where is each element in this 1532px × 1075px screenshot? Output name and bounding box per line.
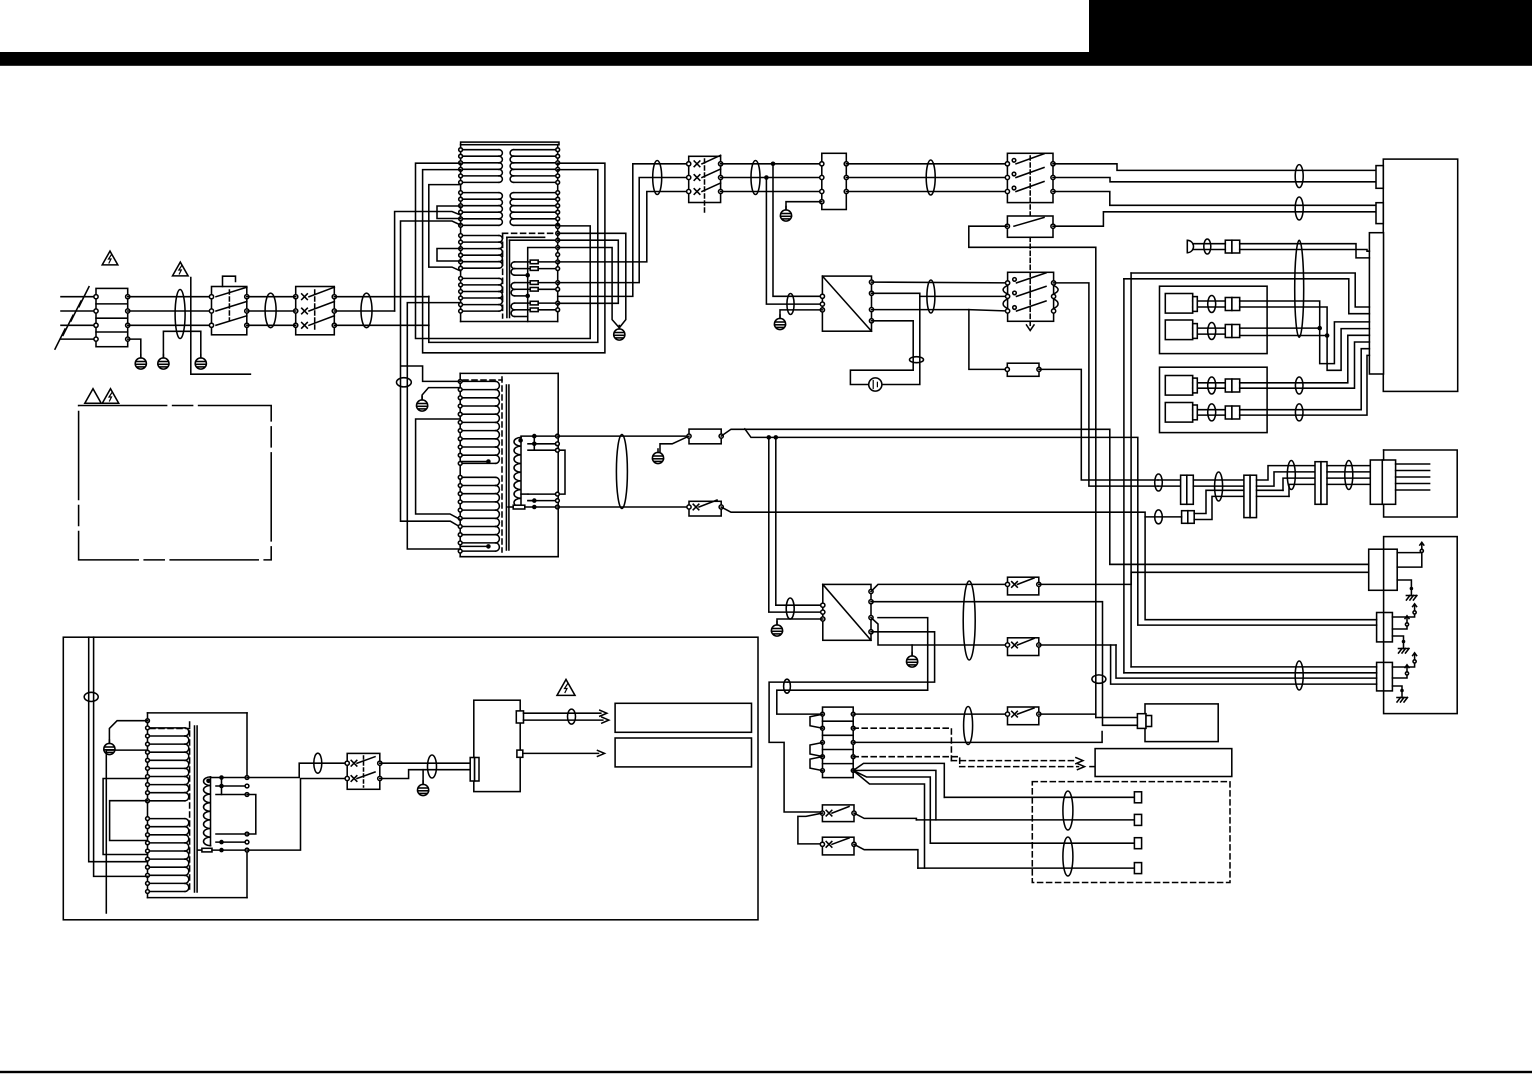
display box xyxy=(1095,749,1232,777)
PCB output single xyxy=(523,752,599,754)
clamp ellipse CN2 input xyxy=(428,755,437,778)
ground E6 (bridge) xyxy=(780,310,822,318)
clamp ellipse bridge input xyxy=(787,294,794,315)
T1 primary winding group 4 (left) xyxy=(461,277,499,279)
S9 output to harness A4 xyxy=(854,844,918,868)
transformer T3 frame xyxy=(148,712,248,714)
CN3 row3 output xyxy=(853,732,1102,743)
AV block1 antenna xyxy=(1397,553,1422,568)
PCB tab1 xyxy=(516,711,523,723)
connector CN6 xyxy=(1244,475,1250,517)
wire row4 to ground xyxy=(128,339,141,357)
clamp ellipse 3 xyxy=(361,293,372,328)
backup battery B1 xyxy=(869,378,882,391)
PS2 ground lead xyxy=(777,619,823,625)
caution triangles pair xyxy=(85,389,101,404)
T3 output wire A xyxy=(247,763,347,777)
AV block2 antennas xyxy=(1392,613,1414,617)
AC outlet box 1 xyxy=(615,703,751,732)
switch S8 xyxy=(822,805,854,822)
CN5 input xyxy=(1145,516,1182,518)
AV block3 antennas xyxy=(1392,662,1414,667)
speaker dashed enclosure xyxy=(1032,782,1230,883)
clamp ellipse band 3 xyxy=(1287,461,1295,490)
transformer T2 frame xyxy=(460,372,558,374)
T1 right bus extra terminals xyxy=(556,225,560,229)
big clamp ellipse PS2 outputs xyxy=(963,581,975,660)
wire bridge mid to SB xyxy=(920,295,1008,297)
wires RY2 to main unit tab1 xyxy=(1053,164,1376,171)
band wires from risers xyxy=(1158,479,1181,481)
T3 secondary taps upper xyxy=(219,775,224,780)
mic plug box 2 xyxy=(1160,367,1268,432)
T3 secondary taps lower xyxy=(216,833,247,835)
CN3 row1 output via switch S7 xyxy=(853,713,1007,715)
video wires to strip xyxy=(1131,273,1369,307)
warning triangle (hot) xyxy=(557,679,575,695)
F2 to ground E7 xyxy=(660,436,689,452)
clamp ellipse band in xyxy=(1155,474,1163,491)
wires CN1 to relay RY2 xyxy=(846,163,1007,165)
T3 primary winding upper xyxy=(148,727,186,729)
bridge rectifier D1 xyxy=(822,276,871,331)
caution note dash-dot box xyxy=(79,406,272,560)
DC-DC converter PS2 xyxy=(823,584,871,640)
ground E1 xyxy=(135,355,146,370)
RY3 output to tab2 xyxy=(1053,212,1376,226)
T1 winding taps junction dots xyxy=(525,273,530,278)
ground E8 xyxy=(771,622,782,637)
PS2 output w4 (head amp feed) xyxy=(788,632,935,682)
T2 secondary taps lower xyxy=(532,498,537,503)
mic D pair to strip xyxy=(1240,349,1370,410)
clamp ellipse AV block3 xyxy=(1295,661,1303,690)
connector CN4 xyxy=(1181,475,1187,504)
switch S6 (2-pole) xyxy=(347,753,380,789)
T3 core lines xyxy=(194,726,196,892)
T1 secondary winding group 1 (right) xyxy=(514,149,558,151)
T1 secondary staircase to relay RY1 xyxy=(558,164,689,297)
main unit box xyxy=(1383,159,1457,391)
T1 low-voltage winding b xyxy=(515,282,528,284)
mic plug D xyxy=(1165,403,1192,423)
T3 output wire B xyxy=(247,779,347,851)
bridge feed drop wires xyxy=(773,164,822,296)
T2 output branch to PS2 xyxy=(745,429,776,438)
cable tie on plug feed pair xyxy=(1092,675,1106,683)
AV block1 connector xyxy=(1369,549,1398,590)
PS2 output w2 xyxy=(871,602,1137,726)
control PCB xyxy=(474,700,520,791)
jack clamp ellipse xyxy=(1204,239,1211,254)
wires TB1 to power switch xyxy=(128,296,212,298)
T2 secondary taps upper xyxy=(532,434,537,439)
CN3 row2 dashed control xyxy=(853,728,951,760)
ground E5 xyxy=(780,207,791,222)
T2 secondary winding xyxy=(514,437,521,507)
clamp ellipse bridge outputs xyxy=(927,280,935,313)
warning triangle (mains) xyxy=(102,251,118,265)
T3 ground lead xyxy=(109,721,147,743)
AV block2 connector xyxy=(1377,613,1393,642)
DSP box xyxy=(1384,450,1458,517)
clamp ellipse CN3 out xyxy=(964,707,973,745)
cable tie on battery pair xyxy=(910,357,924,363)
AC outlet box 2 xyxy=(615,738,751,767)
T2 secondary fuse xyxy=(508,506,513,508)
video risers down to AV board xyxy=(1130,273,1132,667)
AV block1 ground hook xyxy=(1397,580,1411,589)
main unit tab2 xyxy=(1376,203,1383,224)
fan box xyxy=(1145,704,1218,742)
T2 switched output xyxy=(557,506,689,508)
T3 right terminals xyxy=(245,776,249,780)
AV block3 input wires xyxy=(1131,666,1377,668)
clamp ellipse after RY1 xyxy=(751,161,760,195)
connector CN2 xyxy=(470,758,474,782)
clamp ellipse band 4 xyxy=(1345,461,1353,490)
jack connector xyxy=(1225,240,1232,253)
page header block top-right (black) xyxy=(1089,0,1532,59)
AV block2 ground hook xyxy=(1392,636,1403,642)
S5 output to AV block3 xyxy=(1039,644,1116,646)
harness plugs xyxy=(1134,792,1141,803)
clamp ellipse T2 outputs xyxy=(616,435,627,509)
power switch S1 xyxy=(212,287,247,335)
T2 right terminals xyxy=(556,434,560,438)
connector CN5 (lower) xyxy=(1182,511,1188,524)
transformer T1 bottom edge xyxy=(461,321,558,323)
clamp ellipse 2 xyxy=(265,293,276,328)
CN3 row5 harness fan-out xyxy=(853,763,944,797)
transformer T1 left bus xyxy=(460,145,462,322)
T3 left link loops xyxy=(103,779,147,855)
chassis lead below warning triangle xyxy=(191,278,251,375)
T1 left bus terminals xyxy=(459,148,463,152)
main unit tab1 xyxy=(1376,166,1383,189)
AV block3 ground hook xyxy=(1392,686,1402,691)
T2 primary winding upper xyxy=(460,380,495,382)
bridge output battery loop xyxy=(872,293,920,384)
connector CN8 (board edge) xyxy=(1370,460,1382,504)
fan plug xyxy=(1137,714,1146,729)
SB interlock bows xyxy=(1003,285,1008,294)
clamp ellipse head amp feed xyxy=(784,679,791,693)
T1 secondary winding group 2 (right) xyxy=(514,192,558,194)
jack wire pair to strip xyxy=(1193,243,1226,245)
T1 outer loop wire A xyxy=(416,163,591,338)
standby switch SB (3-pole) xyxy=(1008,272,1054,321)
bridge output to switch SB xyxy=(872,281,1008,284)
T2 output wire (fused main) xyxy=(557,435,689,437)
big loom ellipse xyxy=(1295,240,1304,337)
relay RY2 xyxy=(1007,153,1053,202)
AC feed riser to T1 (row2) xyxy=(395,212,461,312)
T2 ground lead xyxy=(422,388,460,400)
cable tie on T3 feed pair xyxy=(84,692,98,701)
headphone jack xyxy=(1187,240,1193,252)
RY3 feed loop xyxy=(969,226,1096,717)
bottom PSU enclosure xyxy=(63,637,758,920)
mic plug C xyxy=(1165,376,1192,396)
wires RY1 to CN1 xyxy=(721,163,822,165)
bottom rule xyxy=(0,1071,1532,1073)
AV block1 input wires xyxy=(1110,563,1369,565)
ground E9 xyxy=(911,645,913,656)
front connector strip xyxy=(1369,233,1383,374)
T1 primary winding group 2 (left) xyxy=(461,192,499,194)
mic B pair xyxy=(1240,327,1320,329)
T1 tap feed to T2 (wire a) xyxy=(401,221,461,527)
fuse F2 xyxy=(689,429,721,444)
transformer T1 top strap xyxy=(461,142,559,145)
T3 secondary winding xyxy=(203,777,210,846)
CN3 plug chevrons xyxy=(810,714,823,728)
cable clamp ellipse xyxy=(175,290,185,339)
CN1 ground lead xyxy=(786,202,822,210)
T1 right bus terminals (upper) xyxy=(556,148,560,152)
transformer T1 right bus xyxy=(557,145,559,322)
T2 primary winding lower xyxy=(460,476,495,478)
clamp ellipse to tab1 xyxy=(1295,165,1303,188)
clamp ellipse PCB out xyxy=(568,709,576,724)
stub wires into DSP box xyxy=(1396,463,1430,465)
S3 output rail to AV block 2 xyxy=(721,507,1376,620)
T1 outer loop wire B xyxy=(423,163,605,353)
switch S9 xyxy=(822,837,854,855)
clamp ellipse band 2 xyxy=(1215,472,1223,501)
multi-pin connector CN3 xyxy=(823,707,854,778)
PCB output pair xyxy=(524,712,601,714)
T1 left U-link xyxy=(429,185,461,271)
terminal block TB1 xyxy=(96,288,128,346)
clamp ellipse T3 out xyxy=(314,753,322,773)
band wires CN4 to CN6 xyxy=(1193,479,1244,481)
thermal switch S3 xyxy=(689,501,721,516)
T1 primary winding group 3 (left) xyxy=(461,235,499,237)
page header banner (black) xyxy=(0,52,1532,66)
clamp ellipse before RY1 xyxy=(653,161,662,195)
T1 low-voltage winding a xyxy=(515,261,528,263)
ground E4 (T1 secondary centre) xyxy=(614,326,625,341)
T3 series link right xyxy=(247,795,256,835)
SB output to band wire 2 xyxy=(1054,283,1158,486)
T2 left terminals xyxy=(458,380,462,384)
S7 output to fan plug xyxy=(1039,713,1096,715)
T2 secondary top lead xyxy=(521,436,534,437)
PCB tab2 xyxy=(517,750,523,757)
T1 core lines xyxy=(507,236,545,238)
T2 core screen dashed xyxy=(463,379,502,381)
ground E10 xyxy=(422,770,424,784)
band wires CN6 to CN7 xyxy=(1257,466,1316,480)
S8 output to harness A2 xyxy=(854,813,916,820)
AC mains leads xyxy=(61,296,96,298)
T1 screen U-link right xyxy=(558,240,619,303)
S8 feed bridge xyxy=(798,813,823,844)
clamp ellipse to tab2 xyxy=(1295,197,1303,220)
PS2 output w5 xyxy=(777,618,928,715)
mic plug A xyxy=(1165,294,1192,314)
wires S1 to S2 xyxy=(247,296,296,298)
bridge long output to fuse rail xyxy=(872,310,1008,370)
AV block3 connector xyxy=(1377,662,1393,691)
band wires CN7 to CN8 xyxy=(1327,465,1370,467)
relay RY3 (single) xyxy=(1007,216,1053,237)
relay RY1 xyxy=(689,156,721,202)
SB dashed plunger xyxy=(1029,272,1031,321)
switch S7 xyxy=(1008,707,1039,725)
switch S4 xyxy=(1008,577,1039,595)
warning triangle (shock) xyxy=(173,262,189,276)
speaker relay harness lines xyxy=(944,796,1134,798)
cable tie on T2 feed pair xyxy=(397,378,412,387)
mic A pair to strip xyxy=(1240,301,1370,364)
T1 outer loop wire C xyxy=(429,170,598,343)
T3 left terminals xyxy=(146,719,150,723)
T3 secondary fuse xyxy=(198,849,202,851)
T1 core screen (dashed) xyxy=(502,233,504,318)
CN3 row4 dashed control xyxy=(853,757,960,767)
S4 output to AV block1 row2 xyxy=(1039,572,1369,584)
fuse rail to band wire 1 xyxy=(1039,369,1158,480)
S6 outputs to CN2 xyxy=(380,762,471,764)
fuse F1 xyxy=(1007,363,1039,376)
CN5 staircase up xyxy=(1194,490,1244,513)
switch S5 xyxy=(1008,638,1039,656)
AC lead breaks (slashes) xyxy=(79,287,89,307)
mic plug box 1 xyxy=(1160,286,1268,353)
wires S2 to transformer T1 xyxy=(334,296,429,298)
T2 left link loops xyxy=(416,419,461,520)
T2 core lines xyxy=(505,385,507,550)
connector CN1 xyxy=(822,153,847,209)
ground E2 / E3 with bridge xyxy=(163,331,200,357)
T1 low-voltage winding c xyxy=(515,302,528,304)
T1 secondary fuses xyxy=(528,261,531,263)
junction dots to bridge feed xyxy=(771,162,776,167)
clamp ellipse harness AB xyxy=(1063,791,1073,830)
interlock relay S2 xyxy=(296,287,335,335)
T3 primary winding lower xyxy=(148,818,186,820)
T3 feed pair xyxy=(89,637,148,862)
clamp ellipse PS2 input xyxy=(786,598,794,619)
T2 second output rail to AV block 2 xyxy=(774,435,779,440)
PS2 output w1 (switched) xyxy=(871,584,1008,591)
T2 series link right xyxy=(557,450,565,494)
clamp ellipse harness CD xyxy=(1063,837,1073,876)
T3 core dashed xyxy=(150,728,190,730)
mic C pair to strip xyxy=(1240,335,1370,383)
connector CN7 xyxy=(1315,462,1321,505)
T2 top-left lead xyxy=(401,366,460,381)
clamp ellipse mid xyxy=(926,160,935,195)
T1 centre-tap pair to ground xyxy=(558,233,626,327)
T1 primary winding group 1 (left) xyxy=(461,149,499,151)
PS2 output w3 via switch S5 xyxy=(871,618,1008,645)
AV board box xyxy=(1384,537,1458,714)
wire RY2 pole3 to tab2 xyxy=(1053,192,1376,206)
T1 tap feed to T2 (wire b) xyxy=(407,303,460,549)
mic plug B xyxy=(1165,320,1192,340)
T2 fused output rail to AV block xyxy=(721,429,1368,564)
T1 inner secondary bus xyxy=(528,248,558,322)
T1 left winding series links xyxy=(437,206,461,219)
